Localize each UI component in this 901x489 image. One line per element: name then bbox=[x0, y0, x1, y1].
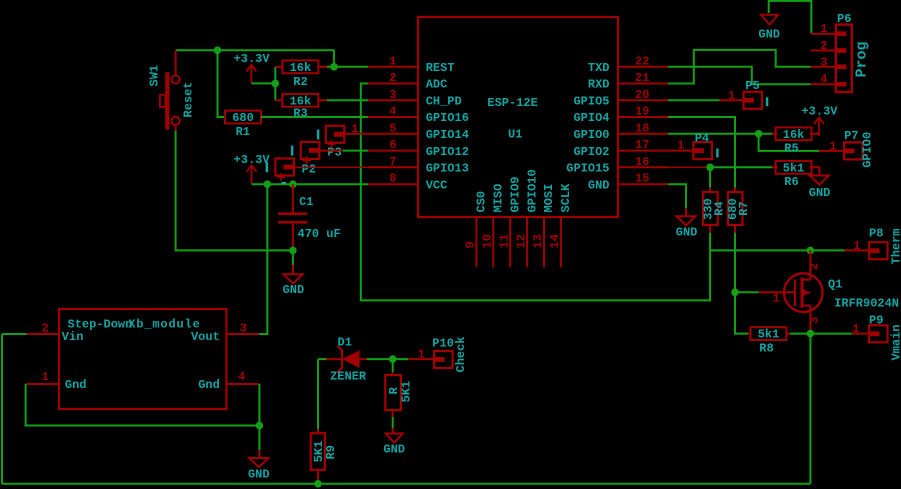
svg-text:CS0: CS0 bbox=[475, 191, 489, 213]
svg-text:19: 19 bbox=[635, 105, 649, 119]
svg-text:R3: R3 bbox=[293, 107, 307, 121]
wire source junction down to rail bbox=[809, 334, 811, 484]
resistor R4 330 (vertical) bbox=[709, 188, 711, 193]
svg-text:13: 13 bbox=[531, 234, 545, 248]
ground below C1 bbox=[292, 250, 294, 265]
svg-text:16: 16 bbox=[635, 155, 649, 169]
node junction C1 bottom / gnd bbox=[289, 247, 297, 255]
svg-text:1: 1 bbox=[677, 139, 684, 153]
connector P4 (GPIO2) bbox=[668, 150, 693, 152]
svg-text:6: 6 bbox=[389, 138, 396, 152]
svg-text:Vmain: Vmain bbox=[889, 324, 901, 360]
wire zener anode to P10 bbox=[367, 358, 408, 360]
svg-text:CH_PD: CH_PD bbox=[426, 95, 462, 109]
svg-text:4: 4 bbox=[820, 73, 827, 87]
wire GPIO0 pin18 to R5 bbox=[668, 133, 772, 135]
ground below module bbox=[258, 450, 260, 458]
svg-text:GND: GND bbox=[283, 283, 305, 297]
svg-text:18: 18 bbox=[635, 121, 649, 135]
wire SW1 top to REST rail bbox=[176, 50, 334, 67]
svg-text:GPIO4: GPIO4 bbox=[573, 111, 609, 125]
resistor R2 16k bbox=[275, 66, 282, 68]
connector P6 Prog (4-pin header) bbox=[836, 25, 852, 93]
node junction REST/R2/SW1 bbox=[330, 63, 338, 71]
resistor R3 16k bbox=[275, 99, 282, 101]
svg-text:GPIO5: GPIO5 bbox=[573, 95, 609, 109]
node junction D1/P10/R bbox=[389, 355, 397, 363]
svg-text:GPIO10: GPIO10 bbox=[525, 169, 539, 212]
wire GPIO0 junction to P7 bbox=[759, 134, 820, 151]
svg-text:1: 1 bbox=[389, 54, 396, 68]
svg-text:Xb_module: Xb_module bbox=[128, 317, 200, 331]
transistor Q1 IRFR9024N bbox=[784, 273, 823, 312]
svg-text:1: 1 bbox=[418, 347, 425, 361]
svg-text:1: 1 bbox=[728, 89, 735, 103]
wire R1 left vertical bbox=[218, 50, 226, 117]
node junction SW1/R1 tap bbox=[214, 47, 222, 55]
svg-text:P3: P3 bbox=[327, 146, 341, 160]
svg-text:GPIO9: GPIO9 bbox=[508, 176, 522, 212]
svg-text:SW1: SW1 bbox=[148, 65, 162, 87]
resistor R1 680 bbox=[225, 111, 261, 124]
wire gate junction to Q1 bbox=[735, 291, 759, 293]
svg-text:GND: GND bbox=[248, 468, 270, 482]
svg-text:Prog: Prog bbox=[854, 41, 871, 77]
power +3.3V (VCC) bbox=[247, 165, 257, 172]
ground below R bbox=[392, 410, 394, 417]
svg-text:Check: Check bbox=[454, 336, 468, 372]
svg-text:2: 2 bbox=[808, 263, 822, 270]
svg-text:MOSI: MOSI bbox=[542, 184, 556, 213]
node junction Q1 gate bbox=[731, 289, 739, 297]
svg-text:GPIO16: GPIO16 bbox=[426, 111, 469, 125]
svg-text:P4: P4 bbox=[695, 131, 709, 145]
svg-text:GND: GND bbox=[383, 443, 405, 457]
ground below GND pin15 bbox=[668, 184, 686, 208]
svg-text:8: 8 bbox=[389, 172, 396, 186]
ground top (P6) bbox=[761, 15, 778, 25]
op-amp U1 ESP-12E module (IC body, pins 1-22) bbox=[418, 17, 618, 217]
svg-text:GPIO12: GPIO12 bbox=[426, 145, 469, 159]
svg-text:D1: D1 bbox=[338, 336, 352, 350]
svg-text:ZENER: ZENER bbox=[330, 370, 367, 384]
svg-text:2: 2 bbox=[42, 322, 49, 336]
resistor R8 5k1 bbox=[748, 333, 751, 335]
wire GPIO15 pin16 (thin) bbox=[668, 166, 710, 168]
wire Vout riser to VCC rail bbox=[259, 184, 267, 334]
wire R8 right to source junction bbox=[787, 333, 791, 335]
transistor SW1 Reset pushbutton bbox=[175, 50, 177, 75]
svg-text:TXD: TXD bbox=[588, 61, 610, 75]
diode D1 ZENER bbox=[326, 358, 342, 360]
ground below R6 bbox=[810, 167, 820, 175]
svg-text:P2: P2 bbox=[302, 162, 316, 176]
wire R1 right to GPIO16 pin 4 bbox=[261, 116, 368, 118]
node junction module gnd bbox=[256, 422, 264, 430]
svg-text:R9: R9 bbox=[324, 445, 338, 459]
svg-text:21: 21 bbox=[635, 71, 649, 85]
node junction Q1 drain bbox=[807, 247, 815, 255]
wire module Gnd1 loop bbox=[26, 384, 260, 426]
svg-text:RXD: RXD bbox=[588, 78, 610, 92]
connector P7 GPIO0 bbox=[819, 150, 844, 152]
node junction Q1 source / P9 bbox=[807, 330, 815, 338]
svg-text:GPIO0: GPIO0 bbox=[573, 128, 609, 142]
svg-text:22: 22 bbox=[635, 54, 649, 68]
wire P2 to GPIO12 pin 6 bbox=[343, 150, 368, 152]
node junction GPIO0/P7 bbox=[755, 130, 763, 138]
node junction GPIO15/R6/R4 bbox=[706, 164, 714, 172]
svg-text:P5: P5 bbox=[745, 79, 759, 93]
wire gate junction down to R8 bbox=[735, 292, 748, 333]
wire GPIO4 pin19 to R7 bbox=[668, 117, 735, 188]
connector P8 Therm bbox=[845, 249, 869, 251]
svg-text:ADC: ADC bbox=[426, 78, 448, 92]
wire module Gnd4 down bbox=[258, 384, 260, 450]
svg-text:GPIO14: GPIO14 bbox=[426, 128, 469, 142]
svg-text:VCC: VCC bbox=[426, 178, 448, 192]
svg-text:GND: GND bbox=[809, 186, 831, 200]
svg-text:1: 1 bbox=[852, 322, 859, 336]
wire R7 bottom to gate junction bbox=[734, 233, 736, 293]
svg-text:3: 3 bbox=[808, 317, 822, 324]
svg-text:10: 10 bbox=[481, 234, 495, 248]
svg-text:4: 4 bbox=[238, 370, 245, 384]
svg-text:R4: R4 bbox=[712, 201, 726, 215]
svg-text:5K1: 5K1 bbox=[400, 381, 414, 403]
wire GPIO15 junction down to R4 bbox=[709, 167, 711, 187]
power +3.3V (top) bbox=[246, 65, 256, 72]
svg-text:1: 1 bbox=[853, 239, 860, 253]
svg-text:Vout: Vout bbox=[191, 330, 220, 344]
svg-text:R6: R6 bbox=[784, 175, 798, 189]
svg-text:2: 2 bbox=[389, 71, 396, 85]
svg-text:11: 11 bbox=[497, 234, 511, 248]
svg-text:3: 3 bbox=[240, 322, 247, 336]
wire drain rail to P8 bbox=[710, 249, 845, 251]
svg-text:+3.3V: +3.3V bbox=[234, 52, 271, 66]
label tick near VCC rail bbox=[281, 182, 286, 184]
connector P9 Vmain bbox=[852, 333, 869, 335]
svg-text:3: 3 bbox=[389, 88, 396, 102]
wire RXD pin21 to P6 pin3 bbox=[668, 50, 811, 84]
connector P2 (GPIO12) bbox=[301, 142, 320, 159]
svg-text:12: 12 bbox=[514, 234, 528, 248]
wire TXD pin22 to P6 pin4 bbox=[668, 67, 811, 84]
svg-text:P9: P9 bbox=[869, 314, 883, 328]
svg-text:P10: P10 bbox=[432, 337, 454, 351]
resistor R5 16k bbox=[776, 127, 812, 140]
svg-text:Gnd: Gnd bbox=[65, 378, 87, 392]
svg-text:Q1: Q1 bbox=[828, 278, 842, 292]
svg-text:GND: GND bbox=[588, 178, 610, 192]
resistor R6 5k1 bbox=[776, 161, 812, 174]
wire R2 right to REST pin 1 bbox=[318, 66, 327, 68]
svg-text:1: 1 bbox=[772, 291, 779, 305]
svg-text:Vin: Vin bbox=[62, 330, 84, 344]
node junction Vout riser on VCC rail bbox=[264, 180, 272, 188]
svg-text:3: 3 bbox=[820, 55, 827, 69]
wire left rail down bbox=[1, 334, 3, 484]
node junction +3.3V/R2/R3 bbox=[272, 80, 280, 88]
wire VCC rail to pin 8 bbox=[252, 183, 368, 185]
svg-text:16k: 16k bbox=[290, 61, 312, 75]
connector P1 (GPIO13, unnamed) bbox=[275, 159, 294, 176]
svg-text:C1: C1 bbox=[299, 195, 313, 209]
svg-text:R1: R1 bbox=[236, 125, 250, 139]
svg-text:2: 2 bbox=[820, 39, 827, 53]
svg-text:P7: P7 bbox=[844, 129, 858, 143]
svg-text:5k1: 5k1 bbox=[783, 161, 805, 175]
svg-text:1: 1 bbox=[820, 22, 827, 36]
svg-text:4: 4 bbox=[389, 105, 396, 119]
svg-text:R7: R7 bbox=[737, 201, 751, 215]
svg-text:SCLK: SCLK bbox=[559, 183, 573, 213]
svg-text:+3.3V: +3.3V bbox=[234, 153, 271, 167]
svg-text:20: 20 bbox=[635, 88, 649, 102]
svg-text:5: 5 bbox=[389, 121, 396, 135]
svg-text:Reset: Reset bbox=[182, 81, 196, 117]
svg-text:17: 17 bbox=[635, 138, 649, 152]
wire Vin from left rail bbox=[2, 333, 27, 335]
svg-text:ESP-12E: ESP-12E bbox=[487, 96, 537, 110]
svg-text:R5: R5 bbox=[784, 142, 798, 156]
svg-text:IRFR9024N: IRFR9024N bbox=[834, 297, 899, 311]
connector P10 Check bbox=[408, 358, 434, 360]
svg-text:GPIO0: GPIO0 bbox=[861, 132, 875, 168]
wire zener cathode stub bbox=[318, 358, 326, 360]
resistor R 5K1 (vertical) bbox=[385, 375, 401, 410]
svg-text:P6: P6 bbox=[837, 12, 851, 26]
wire gnd to P6 pin1 bbox=[769, 1, 812, 34]
svg-text:+3.3V: +3.3V bbox=[801, 105, 838, 119]
svg-text:15: 15 bbox=[635, 172, 649, 186]
svg-text:1: 1 bbox=[829, 140, 836, 154]
svg-text:680: 680 bbox=[232, 111, 254, 125]
wire SW1 bottom to C1 gnd node bbox=[176, 131, 293, 250]
svg-text:P8: P8 bbox=[869, 227, 883, 241]
node junction C1 on VCC rail bbox=[289, 180, 297, 188]
svg-text:R2: R2 bbox=[293, 75, 307, 89]
svg-text:Gnd: Gnd bbox=[198, 378, 220, 392]
connector P3 (GPIO14) bbox=[326, 126, 345, 143]
svg-text:470 uF: 470 uF bbox=[298, 227, 341, 241]
wire R3 right to CH_PD pin 3 bbox=[318, 99, 327, 101]
power +3.3V (R5) bbox=[810, 133, 819, 135]
wire bottom gnd rail bbox=[2, 483, 810, 485]
svg-text:1: 1 bbox=[351, 122, 358, 136]
svg-text:9: 9 bbox=[464, 241, 478, 248]
svg-text:GND: GND bbox=[758, 28, 780, 42]
capacitor C1 470 uF bbox=[292, 184, 294, 212]
svg-text:1: 1 bbox=[42, 370, 49, 384]
svg-text:14: 14 bbox=[548, 234, 562, 248]
connector P5 bbox=[720, 99, 744, 101]
resistor R9 5K1 (vertical) bbox=[317, 429, 319, 433]
svg-text:MISO: MISO bbox=[492, 184, 506, 213]
op-amp U2 Step-Down Xb_module bbox=[59, 309, 226, 409]
node junction R9 on gnd rail bbox=[314, 480, 322, 488]
svg-text:GPIO13: GPIO13 bbox=[426, 162, 469, 176]
svg-text:GPIO2: GPIO2 bbox=[573, 145, 609, 159]
wire junction down to R bbox=[392, 359, 394, 372]
svg-text:U1: U1 bbox=[508, 128, 522, 142]
wire ADC pin2 down-right to Q1 gate column bbox=[361, 84, 710, 301]
wire GPIO5 pin20 to P5 bbox=[668, 99, 720, 101]
svg-text:REST: REST bbox=[426, 61, 455, 75]
svg-text:Therm: Therm bbox=[889, 228, 901, 264]
wire R2/R3 left link bbox=[274, 67, 276, 101]
wire GPIO15 junction to R6 bbox=[710, 166, 772, 168]
svg-text:R8: R8 bbox=[759, 341, 773, 355]
svg-text:16k: 16k bbox=[783, 128, 805, 142]
svg-text:5k1: 5k1 bbox=[758, 328, 780, 342]
svg-text:GPIO15: GPIO15 bbox=[566, 162, 609, 176]
wire zener cathode down to R9 bbox=[317, 359, 319, 429]
svg-text:GND: GND bbox=[676, 226, 698, 240]
resistor R7 680 (vertical) bbox=[734, 188, 736, 193]
wire +3.3V to R2/R3 junction bbox=[251, 82, 275, 84]
